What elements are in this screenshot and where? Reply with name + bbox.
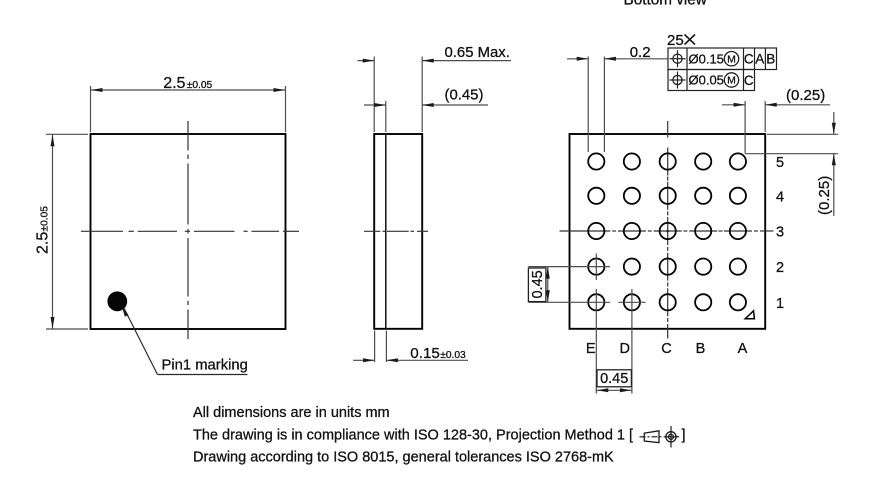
ball A2 (730, 259, 746, 275)
ball B4 (695, 188, 711, 204)
dim 2.5 top extension lines (90, 86, 92, 132)
dim 0.45 left box (528, 268, 546, 302)
dim 0.25 v extension lines (767, 133, 838, 135)
svg-text:C: C (744, 52, 754, 67)
svg-text:±0.05: ±0.05 (187, 80, 213, 91)
dim 0.15 dimension line (353, 359, 375, 361)
svg-text:E: E (586, 341, 596, 357)
ball A1 (730, 294, 746, 310)
svg-text:(0.25): (0.25) (816, 176, 833, 215)
ball D3 (624, 223, 640, 239)
ball D2 (624, 259, 640, 275)
svg-text:D: D (619, 341, 629, 357)
svg-text:(0.25): (0.25) (786, 87, 825, 104)
ball C5 (660, 153, 676, 169)
column C centerline (667, 121, 669, 138)
ball C3 center dot (666, 230, 669, 233)
dim 0.25 h dimension line (722, 104, 745, 106)
svg-text:Ø0.05: Ø0.05 (689, 73, 724, 88)
dim 0.45 bottom dimension line (596, 389, 632, 391)
top view vertical centerline (187, 121, 189, 151)
ball E1 (588, 294, 604, 310)
dim 0.25 h extension lines (744, 101, 746, 154)
ball E1 crosshair (528, 301, 610, 303)
side view outline (374, 134, 422, 329)
fcf position symbol row2 (673, 75, 682, 84)
row 3 centerline (560, 230, 611, 232)
dim 0.45 side extension line (385, 101, 387, 132)
svg-text:M: M (727, 53, 736, 65)
svg-text:2: 2 (776, 260, 784, 276)
svg-text:A: A (738, 341, 748, 357)
svg-text:Bottom view: Bottom view (624, 0, 708, 9)
pin A1 index triangle (745, 311, 754, 319)
fcf frame row1 (668, 48, 777, 70)
dim 0.15 extension lines (374, 331, 376, 363)
svg-text:(0.45): (0.45) (445, 88, 484, 104)
dim 0.45 bottom box (597, 370, 631, 387)
svg-text:0.45: 0.45 (530, 270, 546, 298)
side view seating plane line (385, 134, 387, 329)
ball B5 (695, 153, 711, 169)
pin1 marking dot (107, 291, 127, 311)
svg-text:2.5: 2.5 (35, 232, 52, 254)
projection symbol cone (644, 431, 659, 443)
svg-text:1: 1 (776, 296, 784, 312)
svg-text:5: 5 (776, 155, 784, 171)
ball C2 (660, 259, 676, 275)
svg-text:B: B (766, 52, 775, 67)
ball E5 (588, 153, 604, 169)
ball E2 crosshair (528, 266, 610, 268)
top view horizontal centerline (81, 230, 123, 232)
dim 0.65 extension lines (373, 57, 375, 133)
svg-text:The drawing is in compliance w: The drawing is in compliance with ISO 12… (193, 428, 633, 444)
ball D5 (624, 153, 640, 169)
ball D4 (624, 188, 640, 204)
bottom view package outline (570, 134, 766, 329)
side view centerline (364, 230, 380, 232)
svg-text:C: C (744, 73, 754, 88)
ball C3 (660, 223, 676, 239)
ball C1 (660, 294, 676, 310)
dim 0.25 v dimension line (833, 112, 835, 134)
ball C4 (660, 188, 676, 204)
ball B2 (695, 259, 711, 275)
pin1 leader line (124, 308, 158, 374)
dim 0.65 dimension line (358, 60, 375, 62)
ball B3 (695, 223, 711, 239)
ball E3 (588, 223, 604, 239)
ball D1 crosshair (619, 301, 646, 303)
ball B1 (695, 294, 711, 310)
dim 2.5 top dimension line (91, 89, 286, 91)
ball E4 (588, 188, 604, 204)
fcf position symbol row1 (673, 54, 682, 63)
svg-text:3: 3 (776, 225, 784, 241)
ball A3 (730, 223, 746, 239)
svg-text:All dimensions are in units mm: All dimensions are in units mm (193, 405, 390, 421)
dim 2.5 left extension lines (46, 133, 88, 135)
ball A5 (730, 153, 746, 169)
svg-text:±0.03: ±0.03 (440, 350, 466, 361)
ball E2 (588, 259, 604, 275)
top view package outline (91, 134, 286, 329)
svg-text:A: A (755, 52, 764, 67)
svg-text:M: M (727, 75, 736, 87)
dim 2.5 left dimension line (52, 134, 54, 329)
svg-text:4: 4 (776, 189, 784, 205)
ball D1 (624, 294, 640, 310)
svg-text:]: ] (682, 428, 686, 444)
dim 0.45 side dimension line (364, 104, 386, 106)
svg-text:0.2: 0.2 (630, 44, 651, 61)
svg-text:0.15: 0.15 (410, 345, 440, 362)
svg-text:0.65 Max.: 0.65 Max. (445, 45, 510, 61)
fcf frame row2 (668, 70, 755, 91)
svg-text:C: C (661, 341, 671, 357)
svg-text:B: B (696, 341, 706, 357)
svg-text:Pin1 marking: Pin1 marking (162, 358, 248, 374)
svg-text:±0.05: ±0.05 (40, 206, 51, 232)
dim 0.2 extension lines (587, 57, 589, 153)
svg-text:2.5: 2.5 (163, 75, 185, 92)
dim 0.2 dimension line (567, 58, 588, 60)
projection symbol circles (666, 432, 676, 442)
svg-text:Ø0.15: Ø0.15 (689, 51, 724, 66)
projection symbol centerline (640, 436, 664, 438)
dim 0.45 left dimension line (547, 267, 549, 303)
fcf cell dividers (686, 48, 688, 91)
ball A4 (730, 188, 746, 204)
svg-text:0.45: 0.45 (600, 371, 628, 387)
svg-text:25: 25 (667, 32, 684, 49)
svg-text:Drawing according to ISO 8015,: Drawing according to ISO 8015, general t… (193, 450, 614, 466)
